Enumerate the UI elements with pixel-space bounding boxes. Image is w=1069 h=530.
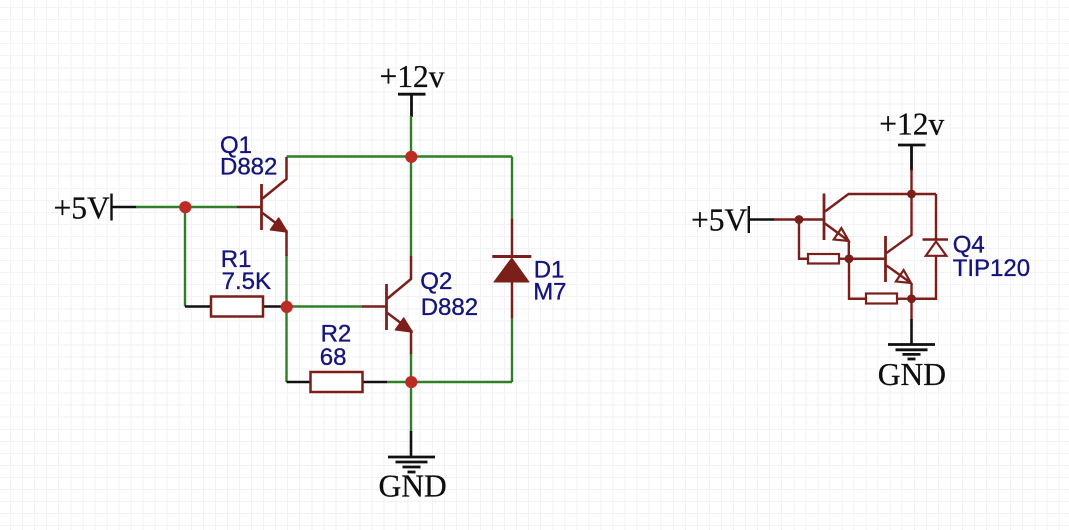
power port +5V (left) [112,194,137,221]
svg-text:+5V: +5V [691,203,748,238]
wire J3 to T2 base [849,258,886,260]
svg-text:+12v: +12v [380,59,445,94]
wire D1 bottom branch [511,318,513,382]
svg-text:GND: GND [878,357,946,392]
svg-text:M7: M7 [533,279,566,306]
T2 emitter [887,266,912,284]
svg-text:68: 68 [320,344,347,371]
wire J1 down to Ra [799,220,808,259]
wire center column upper [410,157,412,257]
power port +5V (right) [749,206,775,233]
diode (internal) cathode bar [923,238,949,241]
wire D1 top branch [511,157,513,220]
T1 emitter [825,224,849,242]
junction J4 bottom [907,294,916,303]
wire +12v pin down to top rail [910,170,912,195]
junction node B [281,301,293,313]
junction bottom node [405,376,417,388]
svg-text:D882: D882 [421,294,478,321]
resistor Ra (internal) [808,254,839,264]
transistor Q2 [362,256,412,354]
junction J2 top rail [907,190,916,199]
svg-text:7.5K: 7.5K [222,268,271,295]
wire J4 down to GND pin [910,299,912,320]
resistor Rb (internal) [866,294,897,304]
wire Q1 emitter to node B [285,255,287,307]
wire bottom rail [387,381,512,383]
junction +12v node [405,151,417,163]
T2 base bar [884,236,887,282]
transistor Q1 [237,157,287,256]
ground GND (right) [888,319,935,359]
power port +12v (left) [398,94,426,117]
wire top rail [287,155,513,157]
junction J1 [795,215,804,224]
svg-text:GND: GND [379,469,447,504]
resistor R2 [287,381,311,383]
wire J3 down to Rb [849,259,866,299]
svg-text:+12v: +12v [879,106,944,141]
wire Q2 emitter down [410,353,412,382]
svg-text:D882: D882 [220,154,277,181]
ground GND (left) [388,431,435,472]
T1 collector [825,194,936,212]
transistor Q4 TIP120 [774,170,948,320]
wire node B to Q2 base [287,305,363,307]
T2 collector [887,194,912,253]
wire +5V pin to T1 base [774,218,824,220]
wire diode down and left to J4 [912,256,937,299]
svg-text:TIP120: TIP120 [953,255,1030,282]
T1 base bar [823,194,826,241]
resistor R1 [185,305,211,307]
junction J3 [845,254,854,263]
diode (internal) triangle [926,242,947,256]
svg-text:Q2: Q2 [420,268,452,295]
T2 emitter open arrow [896,270,911,283]
svg-text:+5V: +5V [54,191,111,226]
wire junction A down to R1 [184,207,186,307]
wire top rail corner down to diode [935,194,937,239]
power port +12v (right) [898,145,926,171]
diode D1 [492,219,531,318]
junction node A [179,201,191,213]
wire +5V to junction A [136,206,185,208]
wire bottom node to GND [410,382,412,432]
wire node B down to R2 [285,307,287,383]
wire junction A to Q1 base [185,206,238,208]
wire +12v stub down [410,116,412,157]
T1 emitter open arrow [834,228,849,241]
